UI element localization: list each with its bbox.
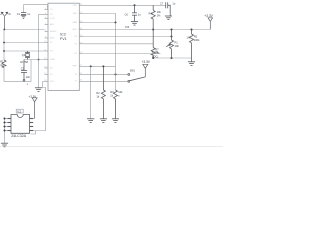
- svg-text:Q1: Q1: [22, 53, 26, 57]
- junction REF col2: [102, 65, 104, 67]
- wire pin SCL to EEPROM route: [33, 82, 45, 131]
- svg-text:VDD: VDD: [72, 5, 77, 7]
- IC3 right pin numbers: [80, 4, 83, 82]
- ground under C6: [131, 22, 138, 26]
- wire EEPROM SCL stub: [33, 118, 34, 120]
- audio input arrows J1: [1, 12, 8, 29]
- svg-text:XO: XO: [50, 51, 53, 53]
- svg-text:POT2: POT2: [152, 51, 159, 54]
- wire pin27 right then down: [83, 14, 116, 23]
- IC3 left pin names: [50, 9, 57, 83]
- svg-text:+3.3V: +3.3V: [29, 94, 37, 98]
- svg-text:R3: R3: [110, 90, 114, 94]
- svg-text:1M: 1M: [0, 63, 4, 67]
- junction antenna: [3, 29, 5, 31]
- junction trimpot top: [171, 36, 173, 38]
- svg-text:+3.3V: +3.3V: [204, 14, 213, 18]
- wire pin AIN row: [4, 29, 45, 31]
- trimpot P1: [166, 30, 173, 59]
- IC2 name box: [16, 109, 23, 113]
- wire ground row left: [4, 81, 31, 83]
- junction trimpot bottom: [171, 57, 173, 59]
- resistor R2: [101, 66, 105, 118]
- svg-text:24LC32A: 24LC32A: [11, 134, 27, 138]
- sheet frame bottom line: [0, 146, 223, 148]
- capacitor C7: [166, 2, 171, 16]
- svg-text:R5: R5: [194, 35, 198, 39]
- svg-text:C1: C1: [17, 12, 21, 16]
- capacitor C6 on pin28 wire: [132, 5, 137, 21]
- svg-text:C2: C2: [21, 66, 25, 70]
- IC3 right pin names: [72, 5, 77, 83]
- svg-text:AVD: AVD: [73, 28, 78, 31]
- wire pin28 to R4 pullup: [83, 4, 166, 6]
- wire pin22: [83, 53, 161, 55]
- junction C6 tap: [134, 4, 136, 6]
- wire vertical bus x114.7: [115, 23, 117, 91]
- wire pin20 to switch: [83, 73, 128, 75]
- wire left bus: [3, 30, 5, 61]
- svg-text:IN: IN: [8, 14, 11, 16]
- IC IC3 body (FV-1 DSP): [48, 3, 79, 90]
- wire pin19 to switch: [83, 80, 128, 82]
- ground under R5: [188, 62, 195, 66]
- svg-text:R2: R2: [96, 91, 100, 95]
- wire column x90 to ground: [90, 66, 92, 118]
- wire analog ground row: [153, 57, 191, 59]
- wire pin23 to R7: [83, 43, 153, 45]
- junction rail R4: [152, 29, 154, 31]
- ground under C7: [165, 16, 172, 20]
- junction T0 col: [115, 73, 117, 75]
- wire pin24 to trimpot: [83, 36, 172, 38]
- wire stub pin X2: [39, 14, 45, 16]
- +3.3V supply EEPROM: [32, 98, 37, 119]
- svg-text:AVD: AVD: [50, 37, 55, 40]
- svg-text:FV1: FV1: [60, 37, 67, 41]
- IC3 left pin stubs: [45, 10, 49, 82]
- wire xtal gnd drop: [30, 60, 32, 82]
- wire right bus x38: [38, 15, 40, 88]
- svg-text:GND: GND: [50, 59, 55, 61]
- ground under R3: [112, 119, 119, 123]
- wire L from cap C1 to pin X1: [24, 5, 48, 13]
- svg-text:C7: C7: [160, 1, 164, 5]
- wire crystal top row: [4, 42, 45, 44]
- junction pin26/27: [115, 22, 117, 24]
- svg-text:SW1: SW1: [130, 69, 136, 72]
- wire 3.3V rail: [83, 29, 210, 31]
- junction rail R5: [191, 29, 193, 31]
- svg-text:CLIP: CLIP: [50, 18, 55, 20]
- svg-text:AIN: AIN: [50, 23, 54, 26]
- EEPROM left pin pads: [7, 119, 11, 131]
- capacitor C2 below crystal: [21, 60, 27, 82]
- junction bus XO: [3, 50, 5, 52]
- wire left bus lower: [3, 68, 5, 82]
- svg-text:DAR: DAR: [72, 21, 77, 24]
- wire pin21 REF row: [83, 65, 116, 67]
- resistor R3: [114, 90, 118, 119]
- junction bus XI: [3, 42, 5, 44]
- svg-text:P1: P1: [175, 41, 179, 45]
- svg-text:10k: 10k: [118, 90, 123, 94]
- svg-text:REF: REF: [73, 66, 78, 68]
- ground under R2: [100, 119, 107, 123]
- svg-text:IC2: IC2: [17, 110, 22, 114]
- +3.3V supply switch: [143, 64, 148, 77]
- junction bus a0: [4, 118, 6, 120]
- IC3 left pin numbers: [44, 8, 47, 82]
- wire pin26: [83, 22, 116, 24]
- ground at bus end: [35, 88, 42, 92]
- junction REF col1: [90, 65, 92, 67]
- svg-text:R4: R4: [149, 12, 153, 16]
- resistor R7: [151, 30, 155, 59]
- junction bus b: [4, 126, 6, 128]
- svg-text:10k: 10k: [175, 44, 180, 48]
- EEPROM right pin pads: [30, 119, 34, 131]
- svg-text:100k: 100k: [194, 38, 200, 42]
- junction rail trimpot: [171, 29, 173, 31]
- resistor R5: [190, 30, 194, 62]
- junction R7 bottom: [152, 57, 154, 59]
- svg-text:IC3: IC3: [60, 32, 66, 36]
- svg-text:+3.3V: +3.3V: [142, 60, 151, 64]
- capacitor C1: [21, 13, 26, 16]
- resistor R4 pullup: [151, 5, 155, 29]
- switch S1: [128, 74, 145, 83]
- svg-text:R1: R1: [0, 60, 4, 64]
- junction bus GND row: [38, 59, 40, 61]
- resistor R1 bias: [2, 60, 6, 68]
- wire stub WP: [30, 131, 35, 134]
- EEPROM IC2 body: [11, 115, 30, 134]
- wire EEPROM left bus: [5, 119, 8, 144]
- svg-text:C6: C6: [125, 13, 129, 17]
- svg-text:10n: 10n: [26, 75, 31, 79]
- ground under pin21 wire: [87, 119, 94, 123]
- junction bus c: [4, 130, 6, 132]
- svg-text:AGND: AGND: [50, 30, 57, 33]
- +3.3V supply right: [208, 18, 213, 30]
- crystal Q1: [25, 51, 30, 60]
- svg-text:3V3: 3V3: [125, 26, 130, 29]
- ground EEPROM: [1, 143, 8, 147]
- ground under C1: [21, 15, 26, 18]
- wire crystal mid row: [4, 50, 45, 52]
- junction bus a: [4, 122, 6, 124]
- IC3 right pin stubs: [79, 5, 83, 81]
- wire crystal bottom row: [24, 59, 45, 61]
